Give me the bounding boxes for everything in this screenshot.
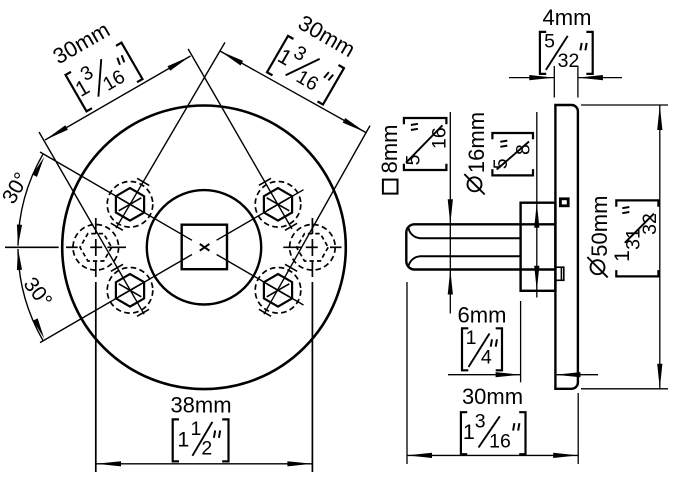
upper-right hexagon (264, 188, 292, 221)
right hole vertical centerline / 38mm extension seg y261 (311, 261, 313, 277)
5/8 bracket top bar (492, 133, 533, 139)
dia50 arrow top (up) (657, 105, 662, 130)
center mark x stroke 2 (200, 244, 210, 251)
top-left bracket 1 3/16in (65, 41, 143, 111)
svg-text:5: 5 (544, 30, 555, 52)
dia50 dimension line (659, 105, 661, 389)
upper-left hex center mark stroke 1 (119, 198, 142, 211)
4mm arrow right (left-pointing) (578, 75, 603, 80)
upper-left hex center mark stroke 2 (119, 198, 142, 211)
lower-left hex tick at +26 (137, 309, 149, 316)
6mm arrow right (left-pointing) (555, 372, 580, 377)
center square: 8mm drive (182, 225, 227, 270)
4mm bracket 5/32in (540, 30, 593, 74)
lower 30deg arc (18, 249, 43, 340)
lower-right hex tick at +26 (259, 309, 271, 316)
upper-right hex center mark stroke 2 (267, 198, 290, 211)
4mm dimension line left part (509, 77, 554, 79)
svg-text:1: 1 (610, 250, 634, 262)
8mm arrow lower (up) (448, 270, 453, 295)
8mm text (rotated) (377, 125, 402, 174)
top-left dim arrow upper-right (168, 54, 192, 71)
diagonal centerline D1 lower-right part (217, 255, 304, 306)
right hole horizontal centerline seg x283.3 (283, 246, 301, 248)
upper arc arrow at D1 end (32, 156, 46, 177)
4mm arrow left (right-pointing) (529, 75, 554, 80)
svg-text:8mm: 8mm (377, 125, 402, 174)
svg-text:16mm: 16mm (464, 112, 489, 173)
right hole dashed circle (290, 225, 336, 271)
dia50mm text (rotated) (587, 196, 612, 278)
left hole vertical centerline / 38mm extension seg y261 (95, 261, 97, 277)
38mm dimension line (96, 463, 312, 465)
svg-text:38mm: 38mm (170, 392, 231, 417)
shaft inner line lower (420, 255, 521, 257)
svg-text:1: 1 (190, 418, 201, 440)
diagonal centerline D2 upper-right part (217, 190, 304, 241)
left hole dashed circle (73, 225, 119, 271)
mounting plate side view (555, 105, 578, 389)
plate tab detail lower (555, 267, 563, 280)
lower-right hex hole dashed circle (255, 268, 301, 314)
5/16 bracket top bar (404, 118, 447, 124)
upper-right hex center mark stroke 1 (267, 198, 290, 211)
svg-text:16: 16 (489, 430, 511, 452)
extension line from upper-right hex to top-left dim (188, 49, 292, 229)
38mm arrow left (96, 461, 121, 466)
upper-right hex tick at +26 (285, 223, 297, 230)
right hole horizontal centerline seg x330 (330, 246, 342, 248)
left hole horizontal centerline seg x66 (66, 246, 78, 248)
svg-text:1: 1 (177, 427, 189, 451)
left hole vertical centerline / 38mm extension seg y239 (95, 239, 97, 256)
upper-left hex tick at -26 (111, 223, 123, 230)
left hole horizontal centerline seg x107.4 (107, 246, 126, 248)
dia50 extension line bottom (581, 388, 668, 390)
svg-text:1: 1 (463, 420, 475, 444)
upper-right hex tick at -26 (259, 178, 271, 185)
1 31/32 bracket bottom bar (616, 270, 658, 276)
30mm extension line left (shaft end) (406, 282, 408, 464)
right hole vertical centerline / 38mm extension seg y218 (311, 218, 313, 234)
shaft inner line upper (420, 237, 521, 239)
30mm arrow right (553, 453, 578, 458)
1 31/32 fraction slash (625, 214, 654, 243)
4mm dimension line right part (578, 77, 622, 79)
extension line from lower-left hex to top-left dim (39, 132, 144, 314)
svg-text:50mm: 50mm (587, 196, 612, 257)
top-right dim arrow lower-right (343, 118, 367, 135)
6mm bracket 1/4in (462, 327, 502, 371)
top-right dim arrow upper-left (219, 49, 243, 66)
dia16 arrow lower (down) (534, 266, 539, 291)
dia50 arrow bottom (down) (657, 364, 662, 389)
upper-left hexagon (116, 188, 144, 221)
diagonal centerline D2 lower-left part (40, 255, 192, 343)
dia16 arrow upper (up) (534, 203, 539, 228)
5/8 bracket bottom bar (492, 169, 533, 175)
svg-text:32: 32 (639, 213, 661, 235)
1 31/32 bracket top bar (616, 200, 658, 206)
upper-left hex hole dashed circle (107, 182, 153, 228)
svg-text:4mm: 4mm (543, 5, 592, 30)
svg-text:30mm: 30mm (462, 384, 523, 409)
lower-left hexagon (116, 274, 144, 307)
30mm arrow left (407, 453, 432, 458)
5/16 bracket bottom bar (404, 164, 447, 170)
lower-left hex tick at -26 (111, 264, 123, 271)
outer circle: flange OD 50mm (62, 106, 346, 390)
shaft end chamfer arc upper (408, 227, 420, 239)
left hole dashed hexagon (80, 234, 112, 261)
upper arc arrow at horizontal (15, 224, 22, 245)
6mm extension line (hub left face) (520, 301, 522, 382)
38mm arrow right (287, 461, 312, 466)
upper-left hex tick at +26 (137, 178, 149, 185)
plate clip detail upper (dark) (560, 199, 568, 206)
lower-right hex tick at -26 (285, 264, 297, 271)
svg-text:6mm: 6mm (458, 303, 507, 328)
8mm dimension line (449, 112, 451, 314)
left hole horizontal centerline seg x5 (5, 246, 59, 248)
top-left 30mm dimension line (45, 56, 191, 140)
right hole dashed hexagon (297, 234, 329, 261)
left hole vertical centerline / 38mm extension seg y282 (95, 282, 97, 472)
svg-text:4: 4 (481, 347, 492, 369)
plate tab inner line (560, 267, 562, 280)
svg-text:32: 32 (558, 50, 580, 72)
inner circle: hub 16mm (147, 190, 261, 304)
lower-right hex center mark stroke 2 (267, 284, 290, 297)
right hole horizontal centerline seg x305.8 (306, 246, 318, 248)
right hole vertical centerline / 38mm extension seg y239 (311, 239, 313, 256)
dia16 dimension line (536, 112, 538, 298)
6mm dimension line right part (555, 374, 598, 376)
5/16 fraction slash (406, 125, 443, 163)
upper-right hex hole dashed circle (255, 182, 301, 228)
left hole vertical centerline / 38mm extension seg y218 (95, 218, 97, 234)
svg-text:8: 8 (513, 144, 535, 155)
svg-text:1: 1 (466, 327, 477, 349)
6mm arrow left (right-pointing) (496, 372, 521, 377)
hub rectangle (521, 203, 556, 291)
svg-text:3: 3 (475, 411, 486, 433)
lower arc arrow at D2 end (33, 318, 47, 339)
6mm dimension line left part (448, 374, 521, 376)
right hole vertical centerline / 38mm extension seg y282 (311, 282, 313, 472)
top-left dim arrow lower-left (44, 125, 68, 142)
upper 30deg arc (18, 154, 43, 245)
extension line from upper-left hex to top-right dim (116, 42, 225, 228)
8mm arrow upper (down) (448, 199, 453, 224)
dia50 extension line top (581, 104, 668, 106)
svg-text:2: 2 (201, 438, 212, 460)
38mm bracket 1 1/2in (173, 418, 229, 462)
30mm bottom bracket 1 3/16in (461, 411, 526, 455)
5/8 fraction slash (497, 142, 529, 170)
top-right 30mm dimension line (220, 51, 366, 133)
lower-right hexagon (264, 274, 292, 307)
30mm dimension line (407, 454, 578, 456)
shaft outline (square drive side view) (406, 224, 555, 269)
left hole horizontal centerline seg x90.2 (90, 246, 102, 248)
diagonal centerline D1 upper-left part (40, 152, 192, 240)
lower-left hex center mark stroke 1 (119, 284, 142, 297)
lower-left hex center mark stroke 2 (119, 284, 142, 297)
lower arc arrow at horizontal (15, 249, 22, 270)
shaft end chamfer arc lower (408, 256, 420, 267)
4mm extension line left (553, 66, 555, 98)
lower-right hex center mark stroke 1 (267, 284, 290, 297)
4mm extension line right (577, 66, 579, 98)
dia16mm text (rotated) (464, 112, 489, 195)
svg-text:16: 16 (428, 127, 450, 149)
extension line from lower-right hex to top-right dim (264, 126, 370, 315)
center mark x stroke 1 (200, 244, 210, 251)
lower-left hex hole dashed circle (107, 268, 153, 314)
square symbol for 8mm (383, 180, 398, 194)
30mm extension line right (plate face) (577, 393, 579, 464)
top-right bracket 1 3/16in (267, 35, 345, 105)
